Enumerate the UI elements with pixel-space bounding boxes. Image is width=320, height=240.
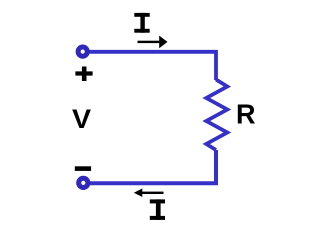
plus sign of source V xyxy=(75,67,92,82)
current direction arrow (bottom, pointing left) xyxy=(134,189,164,198)
resistor R (zigzag body) xyxy=(206,80,227,151)
node: - terminal of source V (open circle) xyxy=(79,178,88,187)
current direction arrow (top, pointing right) xyxy=(138,36,168,49)
node: + terminal of source V (open circle) xyxy=(78,47,87,56)
wire: bottom segment from resistor through bottom-right corner to - terminal xyxy=(90,150,216,183)
minus sign of source V xyxy=(75,166,91,171)
wire: top segment from + terminal to top-right corner, down to resistor xyxy=(90,52,217,80)
label I (current, bottom) xyxy=(150,199,165,220)
voltage source label V xyxy=(72,105,91,132)
resistor value label R xyxy=(236,100,256,128)
label I (current, top) xyxy=(134,13,149,33)
